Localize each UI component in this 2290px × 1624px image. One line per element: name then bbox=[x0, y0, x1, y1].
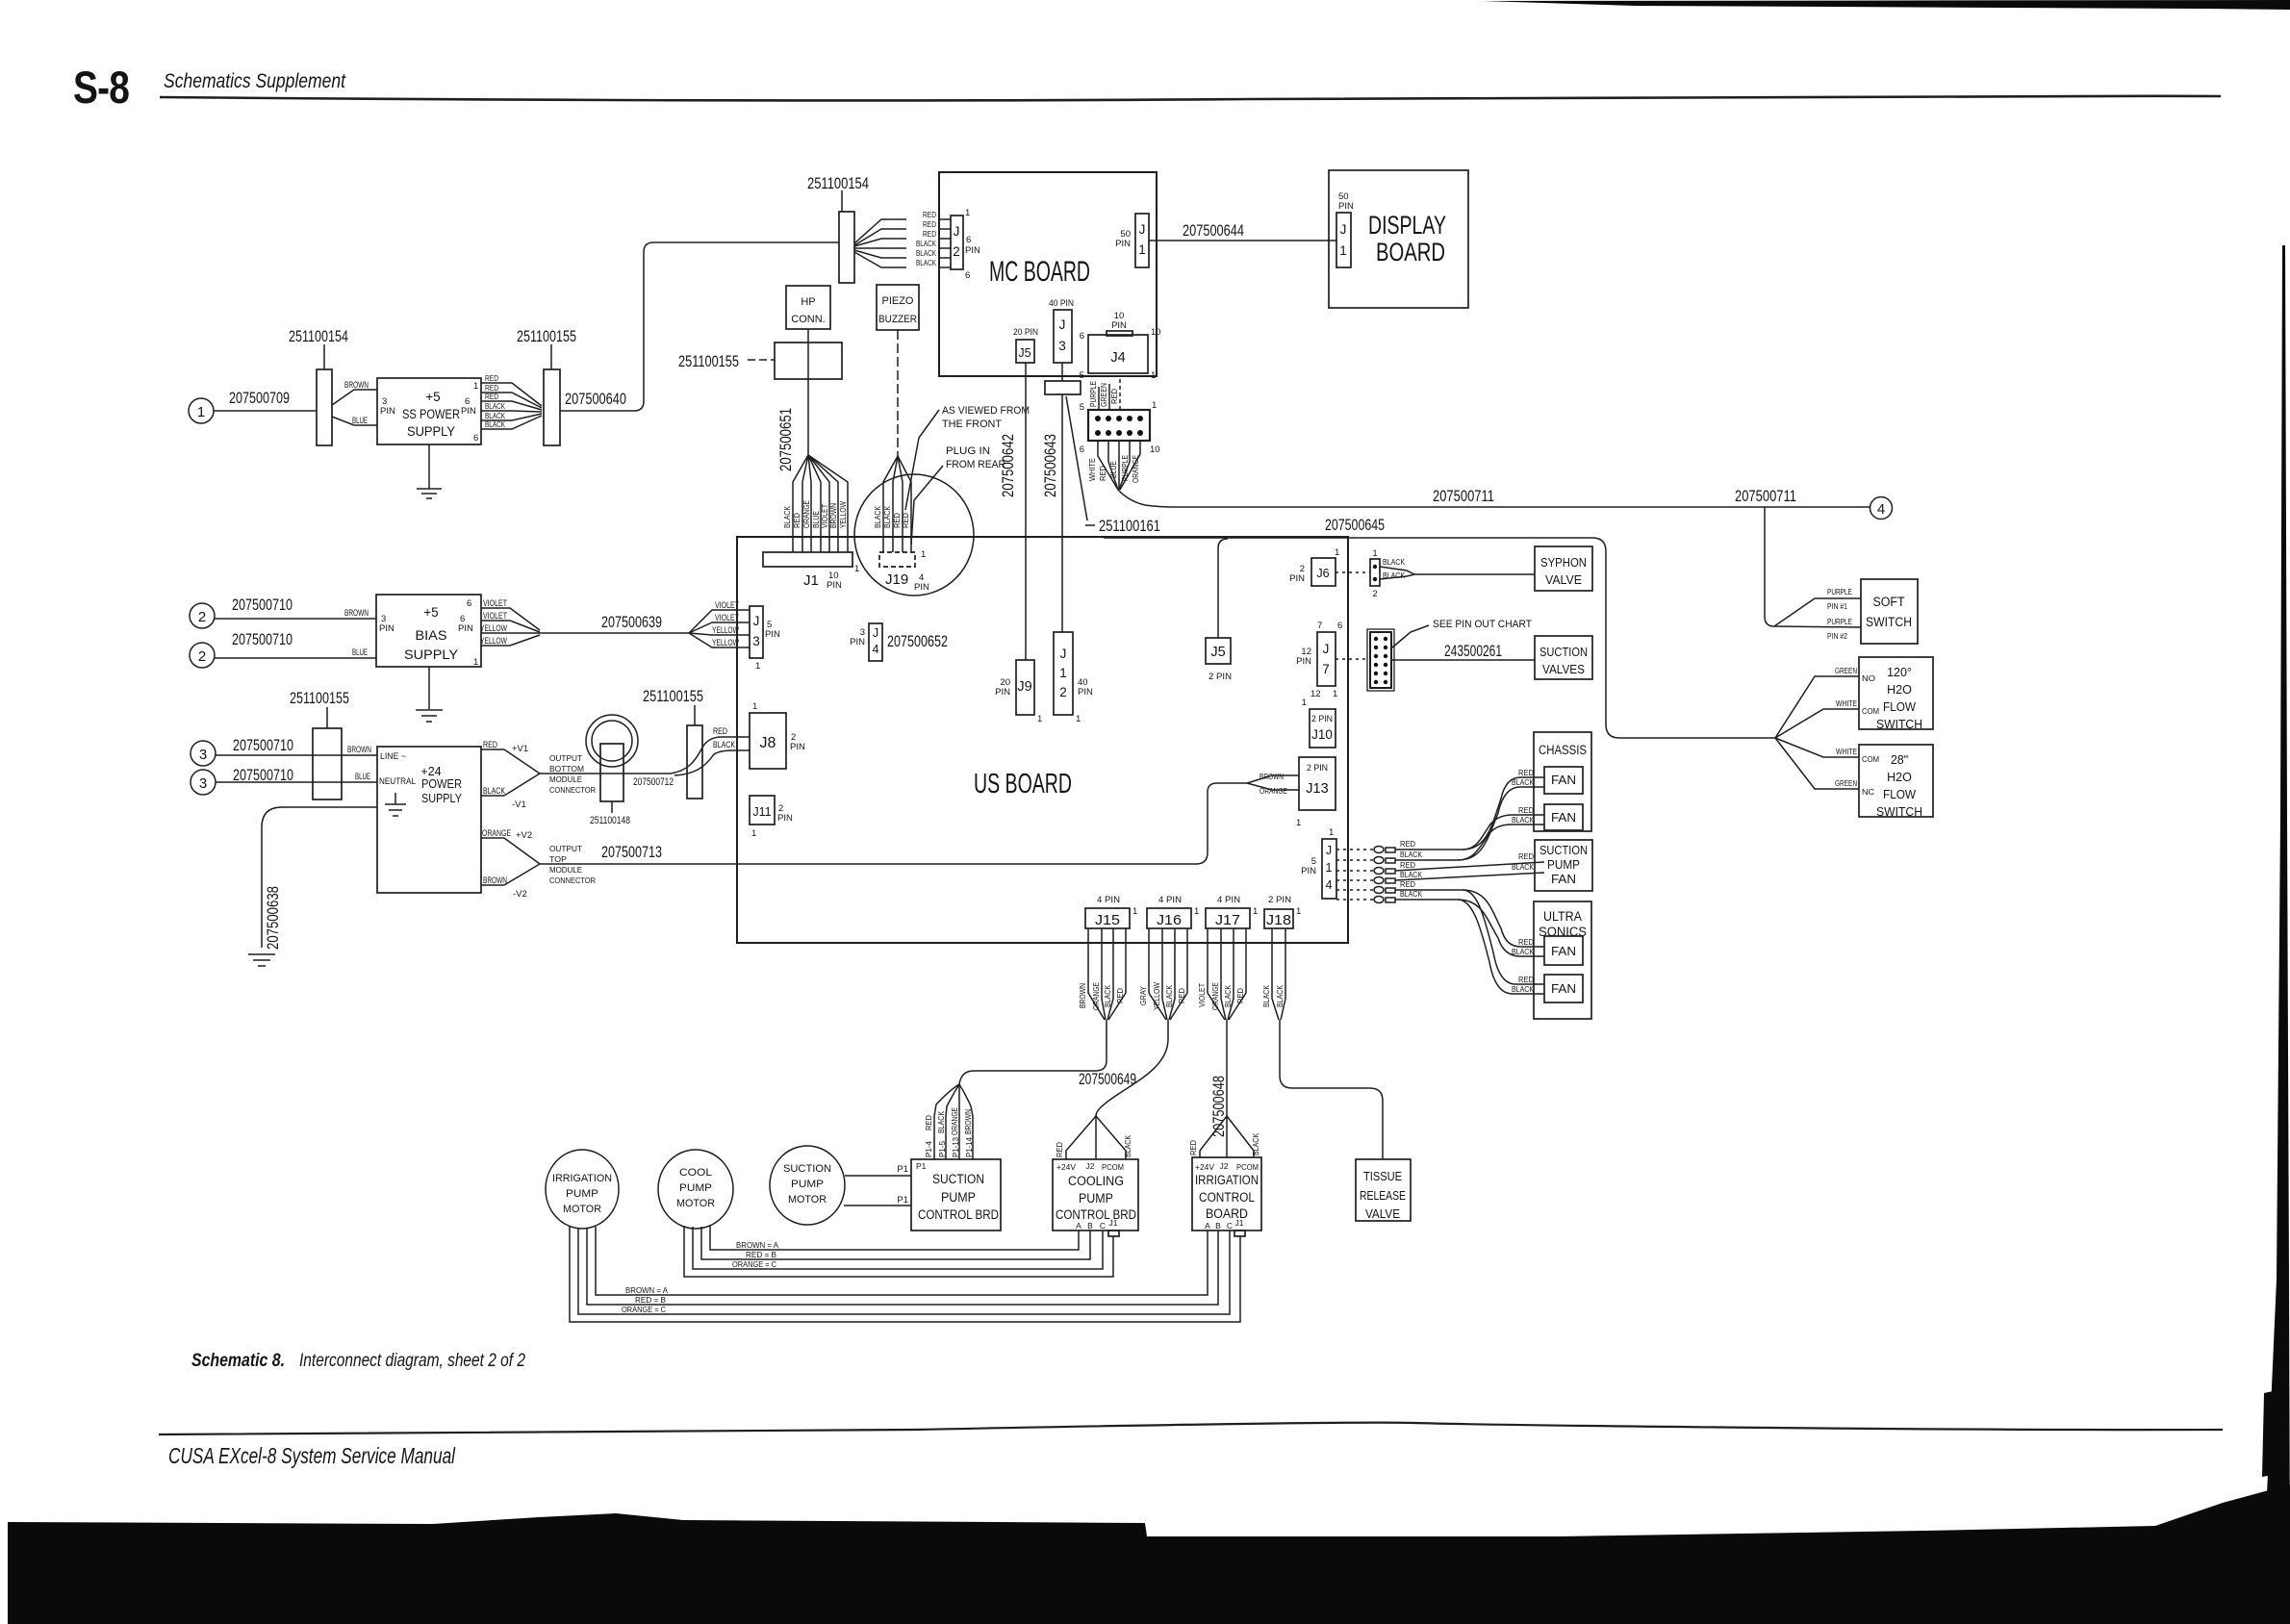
svg-text:207500711: 207500711 bbox=[1433, 487, 1494, 505]
wire 207500649 J15 to suction pump control board bbox=[924, 1020, 1107, 1159]
svg-text:BROWN: BROWN bbox=[344, 608, 369, 619]
svg-text:4: 4 bbox=[873, 643, 879, 656]
svg-text:2: 2 bbox=[198, 648, 206, 665]
connector 251100155 (HP harness) bbox=[678, 343, 842, 379]
svg-text:BLACK: BLACK bbox=[873, 506, 882, 528]
connector J1 on display board bbox=[1336, 213, 1351, 267]
connector 251100155 (US J8 input) bbox=[643, 687, 703, 799]
svg-text:251100154: 251100154 bbox=[807, 174, 869, 192]
connector J3 on US board bbox=[750, 606, 780, 672]
svg-text:207500713: 207500713 bbox=[601, 843, 662, 861]
connector 251100154 (top, at MC) bbox=[807, 174, 869, 283]
svg-text:PIN: PIN bbox=[461, 406, 476, 417]
svg-text:BLACK: BLACK bbox=[1512, 777, 1534, 787]
svg-text:BLACK: BLACK bbox=[1512, 947, 1534, 956]
28 inch H2O flow switch box bbox=[1859, 745, 1933, 819]
svg-text:1: 1 bbox=[751, 828, 756, 839]
header rule bbox=[160, 96, 2221, 101]
svg-text:207500710: 207500710 bbox=[232, 596, 293, 614]
svg-text:BROWN: BROWN bbox=[1259, 772, 1284, 781]
note SEE PIN OUT CHART bbox=[1392, 619, 1532, 647]
svg-text:J1: J1 bbox=[803, 572, 819, 589]
svg-text:AS VIEWED FROM: AS VIEWED FROM bbox=[942, 405, 1030, 417]
svg-text:C: C bbox=[1227, 1221, 1233, 1231]
svg-text:BLACK: BLACK bbox=[1400, 850, 1422, 859]
svg-text:Interconnect diagram, sheet 2: Interconnect diagram, sheet 2 of 2 bbox=[299, 1351, 525, 1371]
svg-text:THE FRONT: THE FRONT bbox=[942, 419, 1002, 430]
footer rule bbox=[159, 1423, 2223, 1434]
svg-text:VIOLET: VIOLET bbox=[715, 600, 739, 611]
svg-text:2 PIN: 2 PIN bbox=[1268, 895, 1291, 905]
connector J12 on US board bbox=[1054, 632, 1093, 724]
svg-text:NC: NC bbox=[1862, 787, 1874, 797]
wires J14 to ultrasonics fans bbox=[1395, 890, 1544, 994]
svg-text:MODULE: MODULE bbox=[549, 774, 582, 784]
svg-text:1: 1 bbox=[1152, 400, 1157, 411]
svg-text:6: 6 bbox=[467, 598, 471, 609]
svg-text:RED: RED bbox=[1518, 937, 1534, 947]
+24 output ORANGE +V2 bbox=[481, 828, 540, 864]
svg-text:4: 4 bbox=[1326, 878, 1333, 892]
suction pump fan box bbox=[1535, 840, 1592, 891]
wire 207500645 bundle across top bbox=[1104, 516, 1775, 738]
svg-text:CONTROL BRD: CONTROL BRD bbox=[918, 1207, 999, 1222]
svg-text:207500642: 207500642 bbox=[999, 434, 1017, 497]
svg-text:7: 7 bbox=[1322, 662, 1330, 676]
connector J4 on MC board bbox=[1080, 311, 1161, 381]
fan wires 251100154 to J2 RED/BLACK bbox=[854, 210, 951, 267]
svg-text:RED: RED bbox=[1400, 879, 1415, 889]
svg-text:BLACK: BLACK bbox=[1400, 870, 1422, 879]
svg-text:PURPLE: PURPLE bbox=[1120, 455, 1130, 481]
svg-text:J6: J6 bbox=[1316, 567, 1329, 580]
svg-text:PUMP: PUMP bbox=[791, 1179, 824, 1190]
svg-text:VIOLET: VIOLET bbox=[715, 613, 739, 623]
svg-text:VIOLET: VIOLET bbox=[483, 598, 507, 609]
node 2 (circled, lower) bbox=[190, 643, 215, 668]
svg-text:28": 28" bbox=[1891, 753, 1908, 767]
connector J9 on US board bbox=[995, 660, 1042, 724]
svg-text:PIN: PIN bbox=[790, 742, 805, 752]
svg-text:+5: +5 bbox=[425, 390, 440, 404]
wires RED/BLACK into J8 bbox=[671, 726, 750, 775]
svg-text:PCOM: PCOM bbox=[1102, 1162, 1124, 1172]
J18 harness fan bbox=[1261, 928, 1285, 1020]
svg-text:PIN: PIN bbox=[380, 406, 395, 417]
svg-text:207500710: 207500710 bbox=[233, 736, 293, 754]
svg-text:RED: RED bbox=[1518, 975, 1534, 984]
svg-text:MODULE: MODULE bbox=[549, 865, 582, 875]
svg-text:SWITCH: SWITCH bbox=[1866, 615, 1912, 629]
svg-text:ORANGE = C: ORANGE = C bbox=[622, 1305, 666, 1314]
caption Schematic 8 bbox=[191, 1351, 525, 1371]
svg-text:1: 1 bbox=[1194, 906, 1199, 917]
svg-text:GRAY: GRAY bbox=[1138, 986, 1148, 1005]
chassis fan 1 bbox=[1544, 767, 1583, 794]
bias output fan VIOLET/YELLOW bbox=[480, 598, 540, 647]
svg-text:RED: RED bbox=[1235, 988, 1245, 1003]
svg-text:RED: RED bbox=[485, 392, 498, 401]
svg-text:J: J bbox=[873, 626, 878, 640]
svg-text:1: 1 bbox=[755, 661, 760, 672]
svg-text:BLACK: BLACK bbox=[782, 506, 792, 528]
svg-text:RED: RED bbox=[1518, 851, 1534, 861]
svg-text:BUZZER: BUZZER bbox=[878, 314, 917, 325]
wire to syphon valve bbox=[1414, 573, 1535, 575]
node 3 (circled, upper) bbox=[191, 741, 216, 766]
svg-text:4 PIN: 4 PIN bbox=[1217, 895, 1240, 905]
svg-text:PURPLE: PURPLE bbox=[1827, 587, 1852, 596]
svg-text:POWER: POWER bbox=[421, 777, 462, 791]
svg-text:VALVE: VALVE bbox=[1365, 1207, 1400, 1221]
10-pin connector top wires PURPLE GREEN RED bbox=[1088, 375, 1120, 410]
svg-text:VIOLET: VIOLET bbox=[1197, 983, 1207, 1007]
svg-text:1: 1 bbox=[1329, 827, 1334, 838]
svg-text:CUSA EXcel-8 System Service Ma: CUSA EXcel-8 System Service Manual bbox=[168, 1443, 456, 1468]
svg-text:40 PIN: 40 PIN bbox=[1049, 298, 1074, 309]
svg-text:251100155: 251100155 bbox=[517, 327, 576, 345]
svg-text:FLOW: FLOW bbox=[1883, 788, 1916, 801]
svg-text:J15: J15 bbox=[1095, 912, 1120, 928]
svg-text:BLUE: BLUE bbox=[1108, 461, 1118, 478]
svg-text:RED = B: RED = B bbox=[746, 1250, 776, 1259]
svg-text:251100155: 251100155 bbox=[678, 352, 739, 370]
svg-text:BLACK: BLACK bbox=[916, 248, 936, 258]
svg-text:251100154: 251100154 bbox=[289, 327, 348, 345]
svg-text:J2: J2 bbox=[1220, 1161, 1229, 1171]
svg-text:RED: RED bbox=[792, 513, 801, 528]
svg-text:J: J bbox=[1139, 222, 1146, 237]
svg-text:P1-4: P1-4 bbox=[924, 1141, 933, 1157]
svg-text:1: 1 bbox=[1151, 370, 1156, 381]
svg-text:251100155: 251100155 bbox=[290, 689, 349, 707]
svg-text:1: 1 bbox=[1339, 243, 1347, 258]
svg-text:CONNECTOR: CONNECTOR bbox=[549, 875, 596, 885]
svg-text:PUMP: PUMP bbox=[679, 1182, 712, 1194]
svg-text:TISSUE: TISSUE bbox=[1363, 1170, 1402, 1183]
wire 207500712 through toroid bbox=[540, 774, 674, 788]
svg-text:PIN: PIN bbox=[914, 582, 929, 593]
svg-text:BLUE: BLUE bbox=[352, 416, 368, 426]
svg-text:207500648: 207500648 bbox=[1209, 1076, 1228, 1137]
svg-text:207500638: 207500638 bbox=[264, 886, 282, 950]
ultrasonics fan 1 bbox=[1544, 936, 1583, 965]
svg-text:RED: RED bbox=[1109, 389, 1119, 404]
svg-text:BLACK: BLACK bbox=[916, 258, 936, 267]
note AS VIEWED FROM THE FRONT bbox=[905, 405, 1030, 510]
svg-text:207500710: 207500710 bbox=[232, 630, 293, 648]
svg-text:J18: J18 bbox=[1266, 912, 1291, 928]
svg-text:1: 1 bbox=[1059, 666, 1067, 680]
svg-text:J11: J11 bbox=[752, 805, 771, 819]
wire to 251100161 label bbox=[1066, 396, 1160, 535]
svg-text:BROWN: BROWN bbox=[483, 875, 507, 886]
svg-text:207500640: 207500640 bbox=[565, 390, 626, 408]
node 2 (circled, upper) bbox=[190, 603, 215, 628]
svg-text:YELLOW: YELLOW bbox=[480, 636, 507, 647]
svg-text:RED: RED bbox=[1400, 860, 1415, 870]
piezo buzzer box bbox=[877, 285, 919, 330]
svg-text:GREEN: GREEN bbox=[1099, 383, 1108, 407]
svg-text:PLUG IN: PLUG IN bbox=[946, 445, 990, 457]
svg-text:J5: J5 bbox=[1210, 645, 1225, 660]
wire 243500261 to suction valves bbox=[1391, 642, 1535, 660]
svg-text:BLACK: BLACK bbox=[882, 506, 892, 528]
cool pump motor 3-phase wires bbox=[684, 1226, 1113, 1277]
svg-text:NEUTRAL: NEUTRAL bbox=[379, 776, 416, 787]
svg-text:+V1: +V1 bbox=[512, 744, 528, 754]
svg-text:SUCTION: SUCTION bbox=[1539, 844, 1588, 857]
svg-text:FROM REAR: FROM REAR bbox=[946, 459, 1005, 470]
HP CONN box bbox=[786, 286, 830, 329]
chassis fan 2 bbox=[1544, 804, 1583, 830]
svg-text:SOFT: SOFT bbox=[1873, 595, 1905, 609]
svg-text:BLACK: BLACK bbox=[485, 401, 505, 411]
wire J18 to tissue release valve bbox=[1280, 1020, 1383, 1159]
svg-text:PUMP: PUMP bbox=[941, 1190, 976, 1205]
svg-text:10: 10 bbox=[1150, 444, 1160, 455]
svg-text:BLUE: BLUE bbox=[352, 647, 368, 658]
wire 207500639 bias to US J3 bbox=[540, 600, 750, 648]
svg-text:GREEN: GREEN bbox=[1835, 778, 1857, 788]
svg-text:WHITE: WHITE bbox=[1087, 458, 1097, 481]
svg-text:BLACK: BLACK bbox=[1223, 985, 1233, 1007]
svg-text:B: B bbox=[1215, 1221, 1221, 1231]
+24 power supply PS3 bbox=[377, 747, 481, 893]
svg-text:1: 1 bbox=[1296, 818, 1301, 828]
irrigation control board bbox=[1192, 1157, 1261, 1236]
svg-text:PURPLE: PURPLE bbox=[1827, 617, 1852, 626]
irrigation pump motor bbox=[546, 1150, 619, 1229]
svg-text:1: 1 bbox=[854, 564, 859, 574]
cool pump motor bbox=[658, 1150, 733, 1229]
svg-text:BLACK: BLACK bbox=[936, 1111, 946, 1133]
bottom black scan band bbox=[8, 1484, 2290, 1624]
svg-text:BLACK: BLACK bbox=[1164, 985, 1174, 1007]
svg-text:PIN: PIN bbox=[1338, 201, 1354, 212]
svg-text:3: 3 bbox=[1058, 339, 1066, 353]
svg-text:RED: RED bbox=[483, 740, 497, 750]
svg-text:FAN: FAN bbox=[1551, 774, 1576, 787]
svg-text:RED: RED bbox=[485, 373, 498, 383]
svg-text:PIN #2: PIN #2 bbox=[1827, 631, 1847, 641]
svg-text:BLACK: BLACK bbox=[916, 239, 936, 248]
svg-text:SUCTION: SUCTION bbox=[932, 1172, 984, 1186]
svg-text:2 PIN: 2 PIN bbox=[1307, 763, 1328, 774]
svg-text:B: B bbox=[1087, 1221, 1093, 1231]
svg-text:J: J bbox=[1323, 642, 1330, 656]
connector J17 on US board bbox=[1206, 895, 1258, 928]
wire 207500651 HP conn harness bbox=[776, 329, 848, 552]
svg-text:SEE PIN OUT CHART: SEE PIN OUT CHART bbox=[1433, 619, 1532, 630]
+24 output BLACK -V1 bbox=[481, 774, 540, 810]
svg-text:BROWN: BROWN bbox=[828, 503, 838, 528]
svg-text:RED: RED bbox=[1115, 988, 1125, 1003]
svg-text:1: 1 bbox=[1132, 906, 1137, 917]
svg-text:1: 1 bbox=[473, 657, 478, 668]
svg-text:SUPPLY: SUPPLY bbox=[421, 792, 463, 805]
svg-text:207500649: 207500649 bbox=[1079, 1070, 1136, 1088]
svg-text:RED: RED bbox=[1055, 1142, 1064, 1157]
flow switch harness fan point bbox=[1775, 666, 1879, 797]
note PLUG IN FROM REAR bbox=[911, 445, 1005, 545]
svg-text:20 PIN: 20 PIN bbox=[1013, 327, 1038, 338]
svg-text:PUMP: PUMP bbox=[1079, 1191, 1113, 1205]
connector J1 on US board bbox=[763, 552, 859, 591]
J15 harness fan bbox=[1078, 928, 1126, 1020]
svg-text:YELLOW: YELLOW bbox=[1152, 982, 1161, 1010]
svg-text:RED: RED bbox=[713, 726, 727, 737]
svg-text:RED: RED bbox=[923, 219, 936, 229]
svg-text:RED: RED bbox=[1400, 839, 1415, 849]
svg-text:RED = B: RED = B bbox=[635, 1295, 666, 1305]
svg-text:RELEASE: RELEASE bbox=[1360, 1189, 1406, 1203]
svg-text:3: 3 bbox=[199, 747, 207, 763]
svg-text:+24V: +24V bbox=[1056, 1162, 1076, 1172]
wires J14 to chassis fans bbox=[1395, 768, 1544, 860]
svg-text:PIN: PIN bbox=[1111, 320, 1127, 331]
connector J14 on US board bbox=[1301, 827, 1336, 899]
svg-text:251100155: 251100155 bbox=[643, 687, 703, 705]
suction pump motor bbox=[770, 1146, 845, 1225]
svg-text:COM: COM bbox=[1862, 754, 1879, 764]
J16 harness fan bbox=[1138, 928, 1187, 1020]
svg-text:J: J bbox=[1060, 647, 1067, 661]
svg-text:COOL: COOL bbox=[679, 1167, 712, 1179]
svg-text:1: 1 bbox=[1253, 906, 1258, 917]
svg-text:6: 6 bbox=[965, 270, 970, 281]
svg-text:207500710: 207500710 bbox=[233, 766, 293, 784]
svg-text:J: J bbox=[753, 614, 760, 628]
svg-text:BROWN: BROWN bbox=[344, 380, 369, 391]
2-pin lug connector at J6 bbox=[1336, 548, 1414, 599]
svg-text:3: 3 bbox=[199, 775, 207, 792]
svg-text:2: 2 bbox=[1372, 589, 1377, 599]
svg-text:BOTTOM: BOTTOM bbox=[549, 764, 584, 774]
connector J6 on US board bbox=[1289, 547, 1339, 586]
svg-text:PURPLE: PURPLE bbox=[1088, 381, 1098, 407]
wire 207500648 J17 to irrigation control board bbox=[1188, 1020, 1260, 1157]
wire 207500710 to bias (brown) bbox=[215, 596, 376, 619]
svg-text:6: 6 bbox=[473, 433, 478, 444]
svg-text:PIN: PIN bbox=[1296, 656, 1311, 667]
connector J19 on US board bbox=[879, 549, 929, 593]
svg-text:P1-14: P1-14 bbox=[964, 1137, 974, 1157]
ultrasonics fans group box bbox=[1534, 901, 1591, 1019]
connector J4 on US board bbox=[850, 623, 882, 661]
svg-text:PIN: PIN bbox=[965, 245, 980, 256]
svg-text:YELLOW: YELLOW bbox=[712, 625, 739, 636]
svg-text:6: 6 bbox=[1080, 331, 1084, 342]
svg-text:RED: RED bbox=[923, 210, 936, 219]
svg-text:VALVE: VALVE bbox=[1545, 573, 1582, 587]
tissue release valve box bbox=[1356, 1159, 1411, 1221]
wire 207500711 long run to node 4 bbox=[1118, 487, 1870, 507]
svg-text:DISPLAY: DISPLAY bbox=[1368, 211, 1446, 240]
svg-text:MOTOR: MOTOR bbox=[788, 1194, 827, 1205]
suction pump control board bbox=[911, 1159, 1001, 1231]
svg-text:207500651: 207500651 bbox=[776, 408, 795, 471]
svg-text:FAN: FAN bbox=[1551, 982, 1576, 996]
svg-text:COOLING: COOLING bbox=[1068, 1174, 1124, 1188]
svg-text:ORANGE: ORANGE bbox=[1131, 455, 1140, 483]
svg-text:BLACK: BLACK bbox=[1512, 815, 1534, 825]
svg-text:SUPPLY: SUPPLY bbox=[407, 424, 455, 439]
svg-text:COM: COM bbox=[1862, 706, 1879, 716]
svg-text:10: 10 bbox=[1151, 327, 1161, 338]
wire 207500713 to US J13 bbox=[540, 783, 1247, 864]
svg-text:ORANGE: ORANGE bbox=[482, 828, 511, 839]
wire 207500642 MC J5 to US J9 bbox=[999, 363, 1026, 660]
svg-text:RED: RED bbox=[1177, 988, 1186, 1003]
svg-text:Schematics Supplement: Schematics Supplement bbox=[164, 70, 346, 92]
output top module connector note bbox=[549, 844, 596, 885]
svg-text:PIN: PIN bbox=[850, 637, 865, 647]
connector 251100154 (left) bbox=[289, 327, 348, 445]
MC board bbox=[939, 172, 1157, 376]
+24 output BROWN -V2 bbox=[481, 864, 540, 900]
svg-text:2: 2 bbox=[1059, 685, 1067, 699]
wire 207500709 from node 1 to connector bbox=[214, 389, 317, 411]
svg-text:J: J bbox=[1326, 844, 1332, 857]
svg-text:ORANGE: ORANGE bbox=[1091, 982, 1101, 1010]
svg-text:Schematic 8.: Schematic 8. bbox=[191, 1351, 285, 1371]
svg-text:BLACK: BLACK bbox=[1261, 985, 1271, 1007]
svg-text:LINE ~: LINE ~ bbox=[380, 751, 406, 762]
svg-text:BLACK: BLACK bbox=[485, 419, 505, 429]
svg-text:J13: J13 bbox=[1306, 781, 1328, 797]
svg-text:ORANGE: ORANGE bbox=[950, 1107, 959, 1135]
svg-text:RED: RED bbox=[901, 513, 910, 528]
svg-text:WHITE: WHITE bbox=[1836, 698, 1857, 708]
svg-text:120°: 120° bbox=[1887, 666, 1912, 679]
svg-text:C: C bbox=[1100, 1221, 1106, 1231]
svg-text:ORANGE = C: ORANGE = C bbox=[732, 1259, 776, 1269]
svg-text:1: 1 bbox=[197, 404, 205, 420]
svg-text:1: 1 bbox=[1333, 689, 1337, 699]
svg-text:1: 1 bbox=[473, 381, 478, 392]
svg-text:-V2: -V2 bbox=[513, 889, 527, 900]
svg-text:P1: P1 bbox=[897, 1195, 908, 1205]
svg-text:207500645: 207500645 bbox=[1325, 516, 1385, 534]
svg-text:4 PIN: 4 PIN bbox=[1097, 895, 1120, 905]
svg-text:J1: J1 bbox=[1109, 1218, 1118, 1228]
svg-text:US BOARD: US BOARD bbox=[974, 769, 1072, 799]
svg-text:SUPPLY: SUPPLY bbox=[404, 647, 458, 662]
svg-text:RED: RED bbox=[1098, 466, 1107, 481]
svg-text:P1-13: P1-13 bbox=[951, 1137, 960, 1157]
svg-text:MOTOR: MOTOR bbox=[563, 1204, 601, 1215]
right-edge black blob bbox=[2262, 1388, 2288, 1477]
wire 207500710 to +24 (blue/neutral) bbox=[216, 766, 377, 784]
svg-text:A: A bbox=[1076, 1221, 1081, 1231]
svg-text:207500711: 207500711 bbox=[1735, 487, 1796, 505]
svg-text:NO: NO bbox=[1862, 673, 1875, 683]
svg-text:12: 12 bbox=[1310, 689, 1321, 699]
J14 harness lugs bbox=[1336, 839, 1422, 903]
wire 207500710 to +24 (brown/line) bbox=[216, 736, 377, 755]
+24 output RED +V1 bbox=[481, 740, 540, 774]
svg-text:ORANGE: ORANGE bbox=[801, 500, 811, 528]
connector J2 on MC board bbox=[951, 208, 980, 281]
svg-text:2 PIN: 2 PIN bbox=[1311, 714, 1333, 724]
irrigation pump motor 3-phase wires bbox=[570, 1227, 1240, 1322]
svg-text:BLACK: BLACK bbox=[713, 740, 735, 750]
svg-text:207500639: 207500639 bbox=[601, 613, 662, 631]
wire BROWN into SS supply bbox=[332, 380, 377, 405]
svg-text:GREEN: GREEN bbox=[1835, 666, 1857, 675]
wire 207500638 to earth ground bbox=[248, 807, 377, 966]
